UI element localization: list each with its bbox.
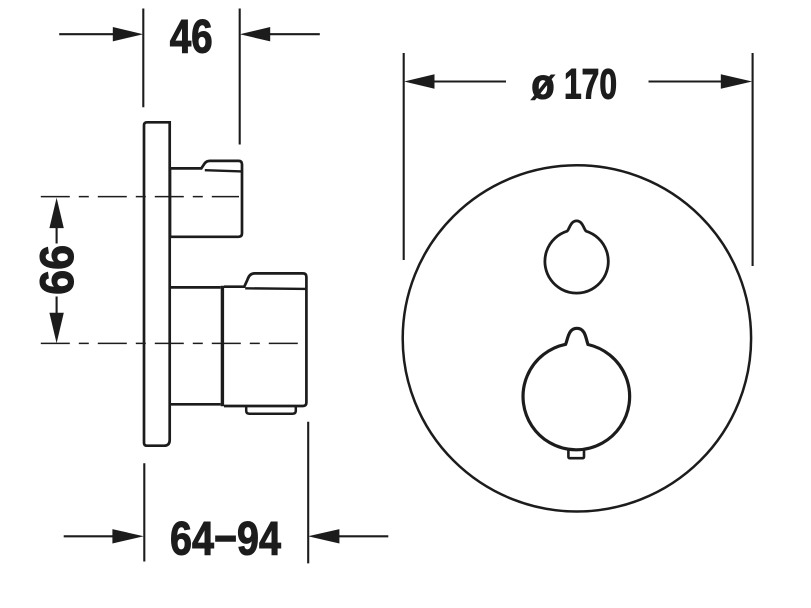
front view big circle bbox=[403, 165, 751, 511]
dim 46 left extension line bbox=[142, 9, 144, 108]
lower knob circle with top notch (front view) bbox=[523, 328, 630, 450]
upper knob centerline bbox=[41, 196, 239, 198]
lower knob divider line bbox=[221, 286, 224, 406]
dim 46 left arrowhead bbox=[113, 27, 143, 41]
dim 46 right extension line bbox=[239, 9, 241, 145]
dim 66 dimension line lower segment bbox=[56, 297, 58, 315]
svg-text:170: 170 bbox=[564, 61, 617, 109]
wall plate (side view) bbox=[144, 122, 170, 445]
dim 64-94 left extension line bbox=[143, 463, 145, 561]
upper knob handle lip line bbox=[205, 170, 242, 171]
lower knob inner cylinder top line bbox=[170, 286, 221, 289]
svg-text:46: 46 bbox=[170, 10, 213, 63]
lower knob bottom tab bbox=[568, 449, 584, 458]
lower knob handle lip line bbox=[245, 287, 306, 290]
dim ø170 left extension line bbox=[403, 53, 405, 260]
dim 66 up arrowhead bbox=[49, 198, 63, 228]
small knob circle with top notch (front view) bbox=[545, 221, 608, 293]
svg-text:ø: ø bbox=[531, 61, 554, 109]
dim 66 down arrowhead bbox=[49, 313, 63, 343]
dim 66 dimension line upper segment bbox=[56, 227, 58, 244]
dim 46 right tail line bbox=[270, 33, 320, 35]
dim 64-94 left arrowhead bbox=[112, 529, 143, 543]
upper knob body outline bbox=[170, 161, 242, 237]
dim 64-94 left tail line bbox=[64, 535, 113, 537]
dim ø170 right arrowhead bbox=[721, 74, 752, 88]
dim ø170 left tail line bbox=[433, 80, 506, 82]
dim 46 right arrowhead bbox=[240, 27, 270, 41]
dim 46 left tail line bbox=[59, 33, 114, 35]
dim 64-94 right arrowhead bbox=[308, 529, 339, 543]
lower knob foot bbox=[246, 406, 296, 414]
svg-text:64−94: 64−94 bbox=[170, 512, 281, 565]
lower knob centerline bbox=[41, 342, 307, 344]
dim ø170 right tail line bbox=[649, 80, 723, 82]
dim 64-94 right extension line bbox=[307, 422, 309, 564]
svg-text:66: 66 bbox=[31, 245, 84, 295]
lower knob inner cylinder bottom line bbox=[170, 403, 221, 406]
lower knob body outline bbox=[224, 273, 306, 406]
dim ø170 right extension line bbox=[752, 53, 754, 266]
dim ø170 left arrowhead bbox=[404, 74, 434, 88]
dim 64-94 right tail line bbox=[339, 535, 388, 537]
